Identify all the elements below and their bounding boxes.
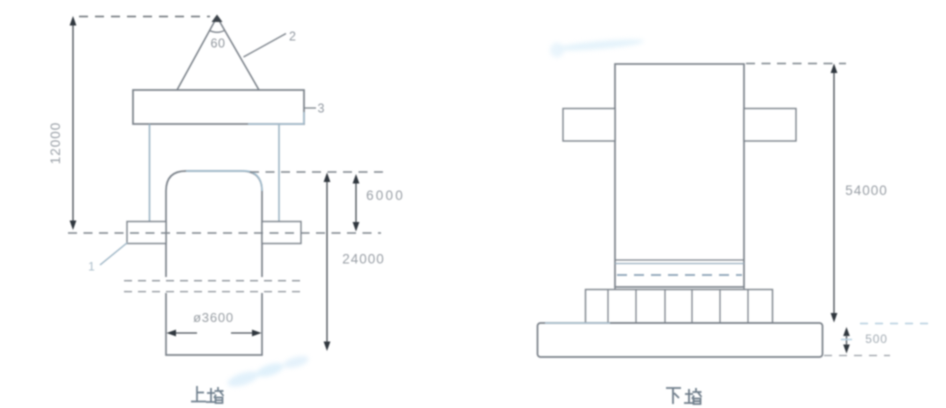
dimension line 24000 <box>324 173 385 352</box>
left flange <box>127 222 166 244</box>
svg-text:12000: 12000 <box>48 122 63 165</box>
apex marker <box>212 15 223 23</box>
dimension line 6000 <box>353 174 405 232</box>
crossbeam 3 <box>133 90 304 124</box>
right flange <box>262 222 301 244</box>
svg-text:ø3600: ø3600 <box>193 310 234 325</box>
inner dashed line <box>617 274 742 276</box>
base bottom level dashed line <box>824 355 890 357</box>
svg-text:2: 2 <box>289 30 296 44</box>
dome top level dashed line <box>250 171 383 173</box>
dimension 500 double arrow <box>841 327 888 354</box>
pile cap dividers <box>608 290 748 324</box>
break dashed line upper <box>124 280 303 282</box>
svg-text:500: 500 <box>865 332 887 346</box>
svg-text:54000: 54000 <box>845 183 888 198</box>
left leg <box>149 124 151 222</box>
left bracket <box>563 109 615 142</box>
tower body <box>615 64 744 287</box>
right bracket <box>744 109 796 142</box>
watermark streak top right figure <box>556 37 644 53</box>
caption 下塔 (drawn strokes) <box>666 388 702 404</box>
pile cap row <box>586 290 773 324</box>
apex level dashed line <box>79 16 210 18</box>
svg-text:60: 60 <box>210 37 225 51</box>
dimension line 54000 <box>831 64 888 323</box>
svg-text:6000: 6000 <box>366 188 405 203</box>
leader line 2 <box>244 34 287 58</box>
dimension ø3600 <box>167 310 262 336</box>
double line upper <box>615 259 744 261</box>
centerline dashed through flanges <box>68 232 381 234</box>
leader line 1 <box>100 243 128 266</box>
svg-text:3: 3 <box>318 102 325 116</box>
base slab blue tint <box>545 322 610 324</box>
triangle tower head <box>177 17 259 90</box>
leader line 3 <box>304 107 316 109</box>
svg-text:1: 1 <box>88 260 95 274</box>
dome shaft outline <box>166 171 262 277</box>
watermark streak bottom left figure <box>226 368 260 389</box>
caption 上塔 (drawn strokes) <box>191 386 224 403</box>
dome top blue tint <box>186 171 262 191</box>
double line lower <box>615 263 744 265</box>
tower top level dashed line <box>746 63 846 65</box>
base slab <box>538 323 823 357</box>
crossbeam blue tint <box>248 112 304 124</box>
60 degree arc <box>210 30 225 32</box>
base top level dashed line <box>860 323 934 325</box>
right leg <box>278 124 280 222</box>
break dashed line lower <box>124 291 303 293</box>
svg-text:24000: 24000 <box>342 252 385 267</box>
dimension line 12000 <box>48 16 76 230</box>
tower wall stubs <box>615 287 744 290</box>
